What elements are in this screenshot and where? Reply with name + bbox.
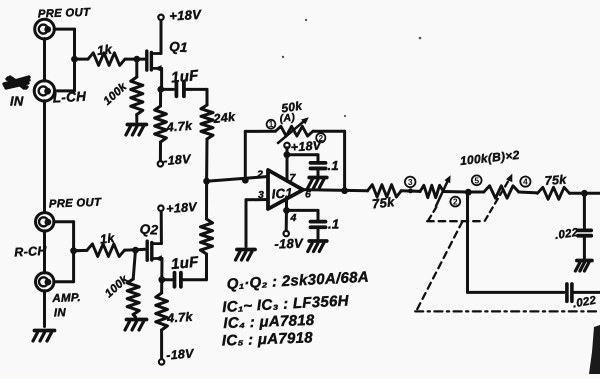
svg-text:R-CH: R-CH (14, 244, 48, 260)
svg-text:PRE OUT: PRE OUT (38, 7, 91, 21)
svg-text:-18V: -18V (274, 235, 304, 251)
svg-text:1uF: 1uF (170, 67, 199, 86)
svg-text:6: 6 (305, 189, 311, 201)
svg-text:1uF: 1uF (170, 254, 199, 273)
svg-text:IC1: IC1 (271, 185, 293, 201)
svg-text:5: 5 (474, 175, 479, 185)
svg-text:Q2: Q2 (139, 222, 159, 238)
svg-text:3: 3 (258, 189, 264, 201)
svg-text:L-CH: L-CH (52, 89, 86, 106)
svg-text:-18V: -18V (166, 347, 196, 363)
svg-text:24k: 24k (212, 110, 237, 126)
svg-text:4.7k: 4.7k (166, 310, 194, 326)
svg-text:75k: 75k (544, 172, 567, 188)
svg-text:IN: IN (54, 307, 67, 319)
svg-text:1: 1 (269, 120, 274, 129)
svg-text:2: 2 (453, 197, 458, 207)
svg-text:IN: IN (10, 94, 24, 109)
svg-text:PRE OUT: PRE OUT (49, 197, 102, 211)
svg-text:1k: 1k (99, 231, 116, 247)
svg-text:+18V: +18V (166, 200, 199, 216)
svg-text:AMP.: AMP. (51, 292, 81, 305)
svg-text:2: 2 (256, 169, 263, 181)
svg-text:4.7k: 4.7k (165, 119, 193, 135)
svg-text:Q1: Q1 (169, 39, 188, 55)
svg-text:4: 4 (523, 177, 528, 187)
svg-text:+18V: +18V (169, 7, 203, 24)
svg-text:75k: 75k (371, 194, 396, 211)
svg-text:IC₅ : μA7918: IC₅ : μA7918 (222, 329, 314, 349)
svg-text:-18V: -18V (163, 152, 193, 168)
svg-text:(A): (A) (279, 111, 296, 125)
svg-text:4: 4 (290, 212, 297, 224)
svg-text:3: 3 (408, 177, 413, 187)
svg-text:.1: .1 (328, 158, 339, 173)
svg-text:+18V: +18V (290, 138, 323, 154)
svg-text:1k: 1k (96, 41, 113, 58)
svg-text:.1: .1 (328, 217, 339, 232)
svg-text:7: 7 (290, 172, 297, 184)
